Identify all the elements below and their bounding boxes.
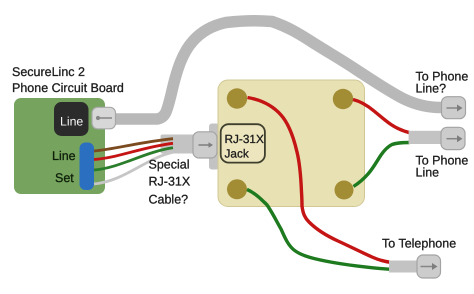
svg-text:Cable?: Cable? xyxy=(149,193,189,207)
svg-text:Line?: Line? xyxy=(416,82,447,96)
wire: red wire inside jack from top-left screw down and out to telephone connector xyxy=(248,98,391,263)
arrow: right arrow inside plug head xyxy=(199,144,210,146)
wire: brown wire from blue connector to cable plug xyxy=(94,139,173,151)
wire: green wire from blue connector to cable plug xyxy=(94,148,173,170)
screw: top-right terminal xyxy=(333,89,353,109)
svg-text:Line: Line xyxy=(60,115,83,129)
label: RJ-31X Jack framed label xyxy=(221,124,265,162)
arrow: left arrow inside plug xyxy=(98,117,113,119)
connector: telephone connector head (arrow right) xyxy=(417,255,441,278)
wire: thick gray line cord from Line port over the top to phone line connector xyxy=(112,21,441,119)
svg-text:Line: Line xyxy=(416,165,440,179)
svg-text:RJ-31X: RJ-31X xyxy=(225,132,264,146)
connector: blue modular connector on board xyxy=(80,143,95,191)
connector: phone line connector head (arrow right) xyxy=(441,127,465,149)
screw: top-left terminal xyxy=(227,88,247,108)
port: black Line port on board xyxy=(54,102,89,136)
wire: green wire from bottom-right screw up to phone line connector xyxy=(354,143,410,187)
svg-text:Set: Set xyxy=(55,171,74,185)
connector: telephone connector stub xyxy=(389,261,419,273)
jack: gray tab on left of RJ-31X jack xyxy=(209,124,219,170)
wire: gray wire from blue connector to cable plug xyxy=(94,152,173,184)
svg-text:Jack: Jack xyxy=(225,146,249,160)
plug: gray plug into Line port (arrow left) xyxy=(92,107,116,129)
connector: phone line connector top right (arrow right) xyxy=(442,97,466,119)
wire: red wire from blue connector to cable plug xyxy=(94,143,173,159)
svg-text:Special: Special xyxy=(149,157,190,171)
screw: bottom-left terminal xyxy=(227,179,247,199)
jack: RJ-31X jack tan box xyxy=(218,80,365,207)
plug: special RJ-31X cable plug head (arrow right) xyxy=(193,132,217,158)
connector: phone line connector stub (second) xyxy=(409,131,443,144)
svg-text:SecureLinc 2: SecureLinc 2 xyxy=(12,65,85,79)
svg-text:Phone Circuit Board: Phone Circuit Board xyxy=(12,81,124,95)
svg-text:RJ-31X: RJ-31X xyxy=(149,175,191,189)
plug: special RJ-31X cable plug body xyxy=(161,135,196,154)
svg-text:Line: Line xyxy=(52,149,76,163)
svg-text:To Telephone: To Telephone xyxy=(382,237,456,251)
screw: bottom-right terminal xyxy=(335,181,354,200)
wire: green wire from bottom-left screw down and out to telephone connector xyxy=(247,190,391,270)
wire: red wire from top-right screw to phone line connector xyxy=(353,100,410,133)
board: SecureLinc 2 phone circuit board xyxy=(14,98,105,194)
